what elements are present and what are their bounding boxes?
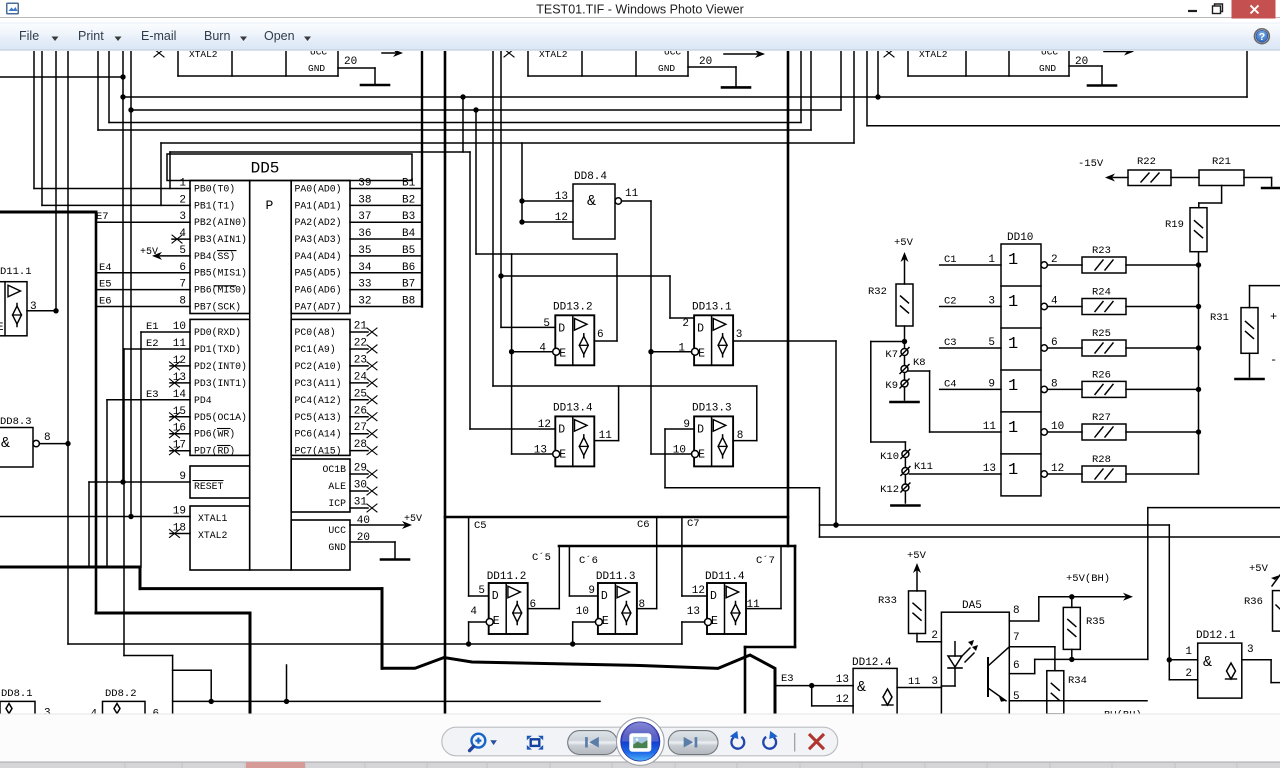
svg-text:&: & [1, 435, 10, 452]
svg-text:29: 29 [354, 463, 367, 475]
svg-text:10: 10 [576, 606, 589, 618]
svg-text:C2: C2 [944, 296, 957, 308]
svg-text:3: 3 [988, 296, 995, 308]
svg-text:PA7(AD7): PA7(AD7) [295, 301, 342, 312]
svg-text:8: 8 [1013, 605, 1020, 617]
svg-text:R22: R22 [1137, 156, 1156, 168]
svg-text:K12: K12 [880, 484, 899, 496]
svg-text:B6: B6 [402, 262, 415, 274]
svg-text:6: 6 [1013, 660, 1020, 672]
svg-text:PB1(T1): PB1(T1) [194, 200, 235, 211]
svg-text:B8: B8 [402, 295, 415, 307]
svg-text:11: 11 [173, 338, 187, 350]
svg-text:11: 11 [625, 188, 639, 200]
svg-text:PC1(A9): PC1(A9) [295, 344, 336, 355]
svg-text:&: & [1203, 654, 1212, 671]
svg-text:D: D [558, 322, 565, 335]
svg-text:DD8.3: DD8.3 [0, 416, 32, 428]
svg-text:PB4(SS): PB4(SS) [194, 251, 235, 262]
svg-text:DD12.1: DD12.1 [1196, 630, 1236, 642]
svg-text:ICP: ICP [328, 498, 346, 509]
svg-text:DD13.1: DD13.1 [692, 301, 732, 313]
svg-text:22: 22 [354, 337, 367, 349]
svg-text:Open: Open [264, 29, 295, 43]
svg-text:1: 1 [1008, 377, 1018, 396]
svg-text:RESET: RESET [194, 481, 224, 492]
svg-text:R33: R33 [878, 595, 897, 607]
svg-text:20: 20 [344, 56, 357, 68]
svg-text:1: 1 [1008, 461, 1018, 480]
svg-text:2: 2 [931, 630, 938, 642]
svg-text:30: 30 [354, 480, 367, 492]
svg-text:Print: Print [78, 29, 104, 43]
svg-text:+5V: +5V [894, 237, 914, 249]
svg-text:13: 13 [836, 674, 849, 686]
svg-text:C1: C1 [944, 254, 957, 266]
svg-text:D: D [492, 590, 499, 603]
svg-text:1: 1 [1008, 293, 1018, 312]
svg-text:PD2(INT0): PD2(INT0) [194, 361, 247, 372]
svg-text:4: 4 [179, 228, 186, 240]
svg-text:1: 1 [1008, 419, 1018, 438]
svg-text:4: 4 [470, 606, 477, 618]
svg-text:PD6(WR): PD6(WR) [194, 429, 235, 440]
svg-text:37: 37 [358, 211, 371, 223]
svg-text:1: 1 [678, 343, 685, 355]
svg-text:PA3(AD3): PA3(AD3) [295, 234, 342, 245]
svg-text:DD11.2: DD11.2 [487, 571, 527, 583]
svg-text:&: & [857, 679, 866, 696]
svg-text:9: 9 [588, 585, 595, 597]
svg-text:R28: R28 [1092, 454, 1111, 466]
svg-text:C´7: C´7 [756, 554, 775, 567]
svg-text:PA1(AD1): PA1(AD1) [295, 200, 342, 211]
svg-text:K8: K8 [913, 357, 926, 369]
svg-text:&: & [587, 193, 596, 210]
svg-text:DD13.4: DD13.4 [553, 402, 593, 414]
svg-text:R32: R32 [868, 286, 887, 298]
svg-text:PB7(SCK): PB7(SCK) [194, 301, 241, 312]
svg-text:1: 1 [1008, 335, 1018, 354]
svg-text:39: 39 [358, 178, 371, 190]
svg-text:R27: R27 [1092, 412, 1111, 424]
svg-text:8: 8 [179, 296, 186, 308]
svg-text:24: 24 [354, 371, 368, 383]
svg-text:1: 1 [988, 254, 995, 266]
svg-text:PB0(T0): PB0(T0) [194, 183, 235, 194]
svg-text:E1: E1 [146, 321, 159, 333]
svg-text:E6: E6 [99, 296, 112, 308]
svg-text:R21: R21 [1212, 156, 1231, 168]
svg-text:DD13.2: DD13.2 [553, 301, 593, 313]
svg-text:XTAL2: XTAL2 [198, 530, 228, 541]
svg-text:32: 32 [358, 295, 371, 307]
svg-text:D: D [710, 590, 717, 603]
svg-text:8: 8 [1051, 378, 1058, 390]
svg-text:PC7(A15): PC7(A15) [295, 446, 342, 457]
svg-text:E4: E4 [99, 262, 112, 274]
svg-text:D: D [601, 590, 608, 603]
svg-text:3: 3 [931, 676, 938, 688]
svg-text:DD10: DD10 [1007, 232, 1033, 244]
svg-text:+: + [1270, 310, 1277, 324]
svg-text:PB3(AIN1): PB3(AIN1) [194, 234, 247, 245]
svg-text:C6: C6 [637, 519, 650, 531]
svg-text:GND: GND [328, 542, 346, 553]
svg-text:33: 33 [358, 279, 371, 291]
svg-text:B2: B2 [402, 194, 415, 206]
svg-text:5: 5 [988, 337, 995, 349]
svg-text:P: P [266, 198, 274, 213]
svg-text:C5: C5 [474, 520, 487, 532]
svg-text:PC2(A10): PC2(A10) [295, 361, 342, 372]
svg-text:E: E [698, 347, 705, 360]
svg-text:6: 6 [597, 329, 604, 341]
svg-text:E2: E2 [146, 338, 159, 350]
svg-text:-15V: -15V [1078, 158, 1104, 170]
svg-text:PD3(INT1): PD3(INT1) [194, 378, 247, 389]
svg-text:E: E [0, 322, 4, 334]
svg-text:12: 12 [692, 585, 705, 597]
svg-text:27: 27 [354, 422, 367, 434]
svg-text:12: 12 [836, 694, 849, 706]
svg-text:PB5(MIS1): PB5(MIS1) [194, 268, 247, 279]
svg-text:10: 10 [173, 321, 186, 333]
svg-text:1: 1 [1008, 251, 1018, 270]
svg-text:2: 2 [179, 194, 186, 206]
svg-text:D11.1: D11.1 [0, 266, 32, 278]
svg-text:R36: R36 [1244, 596, 1263, 608]
svg-text:E3: E3 [781, 673, 794, 685]
svg-text:D: D [558, 423, 565, 436]
svg-text:C7: C7 [687, 518, 700, 530]
svg-text:19: 19 [173, 506, 186, 518]
svg-text:PA4(AD4): PA4(AD4) [295, 251, 342, 262]
svg-text:B4: B4 [402, 228, 416, 240]
svg-text:13: 13 [687, 606, 700, 618]
svg-text:20: 20 [699, 56, 712, 68]
svg-text:2: 2 [1051, 254, 1058, 266]
svg-text:34: 34 [358, 262, 372, 274]
svg-text:PC0(A8): PC0(A8) [295, 327, 336, 338]
svg-text:5: 5 [543, 318, 550, 330]
svg-text:GND: GND [1039, 63, 1056, 74]
svg-text:PA0(AD0): PA0(AD0) [295, 183, 342, 194]
svg-text:C´5: C´5 [532, 551, 551, 564]
svg-text:36: 36 [358, 228, 371, 240]
svg-text:B7: B7 [402, 279, 415, 291]
svg-text:R19: R19 [1165, 219, 1184, 231]
svg-text:3: 3 [179, 211, 186, 223]
svg-text:2: 2 [682, 318, 689, 330]
svg-text:DA5: DA5 [962, 600, 982, 612]
svg-text:E3: E3 [146, 389, 159, 401]
svg-text:C4: C4 [944, 378, 957, 390]
svg-text:+5V: +5V [404, 514, 422, 525]
svg-text:23: 23 [354, 354, 367, 366]
svg-text:4: 4 [539, 343, 546, 355]
svg-text:C3: C3 [944, 337, 957, 349]
svg-text:E5: E5 [99, 279, 112, 291]
svg-text:DD11.4: DD11.4 [705, 571, 745, 583]
svg-text:D: D [697, 322, 704, 335]
svg-text:?: ? [1259, 31, 1265, 43]
svg-text:PA5(AD5): PA5(AD5) [295, 268, 342, 279]
svg-text:OC1B: OC1B [322, 464, 346, 475]
svg-text:5: 5 [179, 245, 186, 257]
svg-text:DD8.1: DD8.1 [1, 688, 33, 700]
svg-text:GND: GND [308, 63, 325, 74]
svg-text:PA2(AD2): PA2(AD2) [295, 217, 342, 228]
svg-text:26: 26 [354, 405, 367, 417]
svg-text:R23: R23 [1092, 245, 1111, 257]
svg-text:R34: R34 [1068, 675, 1087, 687]
svg-text:PC4(A12): PC4(A12) [295, 395, 342, 406]
svg-text:-: - [1270, 353, 1277, 367]
svg-text:+5V: +5V [1249, 563, 1269, 575]
svg-text:11: 11 [983, 421, 997, 433]
svg-text:9: 9 [179, 471, 186, 483]
svg-text:R24: R24 [1092, 287, 1111, 299]
svg-text:DD12.4: DD12.4 [852, 657, 892, 669]
svg-text:PB2(AIN0): PB2(AIN0) [194, 217, 247, 228]
svg-text:R25: R25 [1092, 328, 1111, 340]
svg-text:DD8.4: DD8.4 [574, 171, 607, 183]
svg-text:E-mail: E-mail [141, 29, 176, 43]
svg-text:K10: K10 [880, 451, 899, 463]
svg-text:PA6(AD6): PA6(AD6) [295, 285, 342, 296]
svg-text:38: 38 [358, 194, 371, 206]
svg-text:6: 6 [1051, 337, 1058, 349]
svg-text:GND: GND [658, 63, 675, 74]
svg-text:10: 10 [1051, 421, 1064, 433]
svg-text:E: E [559, 347, 566, 360]
svg-text:13: 13 [983, 463, 996, 475]
svg-text:6: 6 [179, 262, 186, 274]
svg-text:35: 35 [358, 245, 371, 257]
svg-text:DD8.2: DD8.2 [105, 688, 137, 700]
svg-text:31: 31 [354, 497, 368, 509]
svg-text:DD13.3: DD13.3 [692, 402, 732, 414]
svg-text:5: 5 [478, 585, 485, 597]
svg-text:7: 7 [1013, 632, 1020, 644]
svg-text:PC5(A13): PC5(A13) [295, 412, 342, 423]
svg-text:TEST01.TIF - Windows Photo Vie: TEST01.TIF - Windows Photo Viewer [536, 3, 743, 17]
svg-text:B5: B5 [402, 245, 415, 257]
svg-text:UCC: UCC [328, 525, 346, 536]
svg-text:+5V: +5V [907, 550, 927, 562]
svg-text:8: 8 [44, 432, 51, 444]
svg-text:R26: R26 [1092, 369, 1111, 381]
svg-text:PD0(RXD): PD0(RXD) [194, 327, 241, 338]
svg-text:2: 2 [1185, 668, 1192, 680]
svg-text:R31: R31 [1210, 312, 1229, 324]
svg-text:PC6(A14): PC6(A14) [295, 429, 342, 440]
svg-text:B3: B3 [402, 211, 415, 223]
svg-text:E7: E7 [96, 211, 109, 223]
svg-text:28: 28 [354, 439, 367, 451]
svg-text:PD1(TXD): PD1(TXD) [194, 344, 241, 355]
svg-text:K11: K11 [914, 461, 933, 473]
svg-text:Burn: Burn [204, 29, 230, 43]
svg-text:R35: R35 [1086, 616, 1105, 628]
svg-text:14: 14 [173, 389, 187, 401]
svg-text:12: 12 [1051, 463, 1064, 475]
svg-text:K7: K7 [885, 349, 898, 361]
svg-text:D: D [697, 423, 704, 436]
svg-text:+5V(BH): +5V(BH) [1066, 573, 1110, 585]
svg-text:PD5(OC1A): PD5(OC1A) [194, 412, 247, 423]
svg-text:21: 21 [354, 321, 368, 333]
svg-text:9: 9 [988, 378, 995, 390]
svg-text:PD7(RD): PD7(RD) [194, 446, 235, 457]
svg-text:11: 11 [908, 676, 921, 688]
svg-text:PC3(A11): PC3(A11) [295, 378, 342, 389]
svg-text:3: 3 [736, 329, 743, 341]
svg-text:DD5: DD5 [251, 160, 280, 178]
svg-text:3: 3 [1247, 644, 1254, 656]
svg-text:ALE: ALE [328, 481, 346, 492]
svg-text:7: 7 [179, 279, 186, 291]
svg-text:B1: B1 [402, 178, 416, 190]
svg-text:XTAL1: XTAL1 [198, 513, 228, 524]
svg-text:1: 1 [1185, 646, 1192, 658]
svg-text:C´6: C´6 [579, 554, 598, 567]
svg-text:K9: K9 [885, 380, 898, 392]
svg-text:25: 25 [354, 388, 367, 400]
svg-text:PD4: PD4 [194, 395, 212, 406]
svg-text:File: File [19, 29, 39, 43]
svg-text:1: 1 [179, 178, 186, 190]
svg-text:DD11.3: DD11.3 [596, 571, 636, 583]
svg-text:4: 4 [1051, 296, 1058, 308]
